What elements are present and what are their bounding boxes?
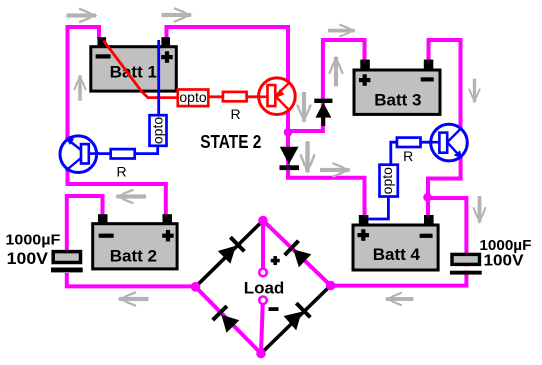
wire: opto U2 bottom to resistor R2 to transistor Q1 base bbox=[136, 145, 158, 154]
arrow: current down (right of Q2) bbox=[297, 92, 311, 123]
wire: blue right resistor R3 to opto U3 bbox=[391, 142, 397, 164]
capacitor C2 bottom plate bbox=[450, 271, 482, 275]
diode D6 (down, below node J1) bbox=[280, 147, 300, 170]
diode D4 (bridge lower-right) bbox=[284, 303, 311, 330]
arrow: current up (middle, above diode D5) bbox=[329, 55, 343, 86]
diode D2 (bridge top-right) bbox=[285, 241, 312, 268]
wire: red opto U1 to resistor R1 bbox=[209, 95, 222, 98]
node J2 junction dot bbox=[423, 193, 432, 202]
svg-text:opto: opto bbox=[379, 167, 395, 194]
svg-text:Batt 2: Batt 2 bbox=[110, 246, 157, 265]
wire: top-left rail from Batt1 negative terminal to left vertical down to Batt2 positive terminal bbox=[68, 27, 166, 216]
resistor R3 (blue) bbox=[397, 138, 421, 147]
arrow: current down (right of Batt3) bbox=[469, 79, 480, 104]
svg-text:Batt 3: Batt 3 bbox=[374, 91, 421, 110]
battery Batt 1 bbox=[91, 37, 177, 91]
wire: bridge side top-right (magenta) bbox=[263, 221, 331, 286]
diode D1 (bridge top-left) bbox=[218, 237, 245, 264]
wire: red link Batt1 negative terminal diagonal to opto U1 input bbox=[104, 41, 178, 98]
arrow: current left (below bottom-left rail) bbox=[117, 292, 148, 306]
transistor Q1 (blue PNP, left) bbox=[60, 136, 99, 173]
node J1 junction dot bbox=[284, 128, 293, 137]
transistor Q3 (blue, right) bbox=[429, 124, 468, 161]
svg-text:R: R bbox=[230, 106, 240, 122]
capacitor C1 bottom plate bbox=[51, 268, 83, 273]
svg-text:1000µF: 1000µF bbox=[479, 237, 531, 254]
wire: load positive lead from bridge top corner bbox=[261, 221, 265, 269]
wire: bridge side lower-left (magenta) bbox=[196, 287, 262, 354]
battery Batt 4 bbox=[353, 215, 438, 270]
svg-text:R: R bbox=[116, 164, 126, 180]
wire: node J1 down through diode D6 then right to Batt4 positive terminal bbox=[288, 131, 365, 217]
wire: Batt3 positive terminal up to rail left and down through diode D5 to node J1 bbox=[288, 40, 365, 131]
node: bridge bottom corner bbox=[256, 349, 266, 359]
svg-text:100V: 100V bbox=[484, 253, 524, 270]
svg-text:100V: 100V bbox=[7, 250, 48, 268]
battery Batt 3 bbox=[354, 60, 440, 115]
arrow: current left (below bottom-right rail) bbox=[384, 293, 413, 306]
arrow: current right (above Batt1 plus) bbox=[162, 8, 193, 22]
wire: node J2 right then down right side through capacitor C2 to bottom rail to bridge right corner bbox=[331, 198, 467, 286]
arrow: current down (right of Batt4 top) bbox=[473, 196, 485, 224]
svg-text:opto: opto bbox=[150, 117, 166, 144]
load terminal circle (+) bbox=[259, 269, 267, 277]
node: bridge right corner bbox=[326, 281, 336, 291]
wire: Batt1 positive terminal up to top rail right then down through transistor Q2 to node J1 bbox=[167, 27, 289, 132]
wire: bridge side lower-right (black) bbox=[261, 286, 331, 354]
load minus mark bbox=[269, 307, 279, 311]
svg-text:R: R bbox=[403, 148, 413, 164]
wire: load negative lead to bridge bottom corner bbox=[261, 304, 263, 353]
svg-text:Load: Load bbox=[244, 278, 285, 297]
diode D5 (up, on Batt3 branch) bbox=[314, 99, 332, 126]
resistor R2 (blue) bbox=[111, 149, 135, 158]
wire: bridge side top-left (black) bbox=[196, 221, 264, 287]
wire: Batt2 negative terminal up-left to capacitor C1 top bbox=[67, 196, 103, 252]
transistor Q2 (red, top middle) bbox=[257, 78, 295, 115]
capacitor C2 top plate bbox=[452, 254, 480, 264]
capacitor C1 top plate bbox=[53, 252, 80, 263]
svg-text:opto: opto bbox=[179, 89, 206, 105]
load plus mark bbox=[271, 259, 280, 263]
battery Batt 2 bbox=[93, 214, 177, 269]
load terminal circle (-) bbox=[259, 297, 267, 305]
wire: transistor Q3 emitter down left to node J2 and Batt4 negative terminal bbox=[428, 152, 461, 217]
svg-text:1000µF: 1000µF bbox=[5, 231, 60, 248]
arrow: current right (to Batt4) bbox=[320, 163, 351, 177]
wire: red resistor R1 to transistor Q2 base bbox=[248, 95, 269, 98]
svg-text:STATE 2: STATE 2 bbox=[200, 131, 261, 152]
capacitor C1 wire gap mask bbox=[61, 264, 73, 268]
arrow: current down (right of D6) bbox=[300, 141, 314, 174]
diode D3 (bridge lower-left) bbox=[213, 306, 240, 333]
node: bridge left corner bbox=[191, 282, 201, 292]
wire: opto U3 bottom to Batt4 positive terminal bbox=[369, 197, 389, 220]
wire: Batt3 negative terminal up and right then down right rail to transistor Q3 collector bbox=[429, 40, 461, 128]
wire: capacitor C1 bottom to bottom-left rail to bridge left corner bbox=[67, 273, 196, 286]
arrow: current left (between Batt2 rails) bbox=[115, 190, 146, 204]
opto U2 (blue, vertical) bbox=[150, 115, 167, 146]
capacitor C2 wire gap mask bbox=[460, 266, 473, 270]
arrow: current up (left vertical) bbox=[74, 74, 86, 101]
wire: blue Batt1 positive down through battery to opto U2 bbox=[157, 40, 160, 115]
opto U1 (red) bbox=[178, 90, 209, 107]
resistor R1 (red) bbox=[223, 92, 247, 101]
node: bridge top corner bbox=[258, 216, 268, 226]
opto U3 (blue, vertical) bbox=[380, 165, 398, 197]
arrow: current right (left of Batt3) bbox=[328, 24, 356, 36]
svg-text:Batt 4: Batt 4 bbox=[373, 245, 421, 264]
arrow: current right (top-left) bbox=[67, 9, 98, 23]
